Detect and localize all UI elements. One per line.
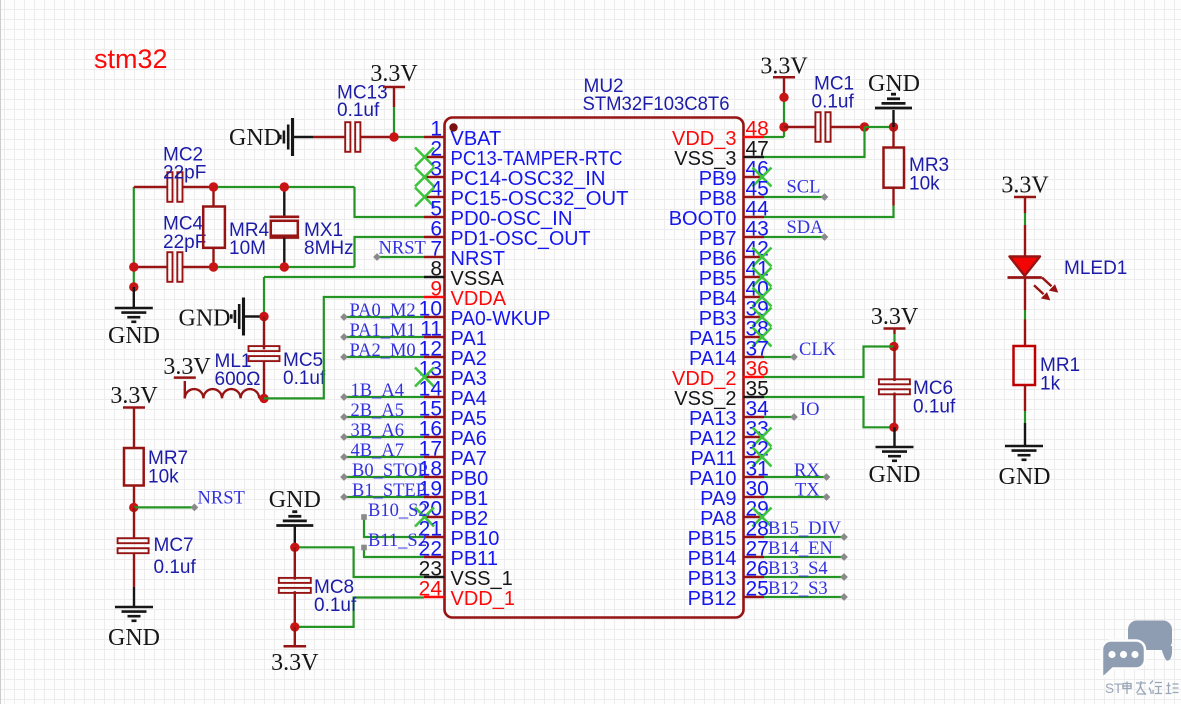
svg-text:PA6: PA6: [451, 428, 487, 450]
no-connect X pin 4: [415, 188, 434, 207]
net label PA0_M2 wire pin 10: [344, 316, 424, 318]
power 3.3V at LED: [1014, 196, 1036, 199]
capacitor MC5 0.1uf: [263, 317, 265, 350]
svg-text:2B_A5: 2B_A5: [351, 401, 404, 421]
net label NRST at pin7: [377, 256, 424, 258]
wire crystal left vertical: [133, 187, 135, 267]
svg-text:PA5: PA5: [451, 408, 487, 430]
wire pin1 VBAT to MC13 junction: [394, 136, 424, 138]
pin 29 PA8 (right): [744, 516, 765, 518]
svg-text:8MHz: 8MHz: [304, 238, 354, 259]
pin 6 PD1-OSC_OUT (left): [424, 236, 445, 238]
pin 26 PB13 (right): [744, 576, 765, 578]
net label PA1_M1 wire pin 11: [344, 336, 424, 338]
net label 2B_A5 wire pin 15: [344, 416, 424, 418]
svg-text:PB8: PB8: [699, 188, 737, 210]
capacitor MC4 22pF: [134, 266, 167, 268]
pin 41 PB5 (right): [744, 276, 765, 278]
net label SCL wire pin45: [764, 196, 825, 198]
pin 31 PA10 (right): [744, 476, 765, 478]
svg-text:1B_A4: 1B_A4: [351, 381, 404, 401]
pin 42 PB6 (right): [744, 256, 765, 258]
svg-text:B14_EN: B14_EN: [768, 539, 833, 559]
pin 45 PB8 (right): [744, 196, 765, 198]
svg-text:PB7: PB7: [699, 228, 737, 250]
ground GND below crystal: [133, 267, 135, 287]
svg-text:CLK: CLK: [799, 340, 837, 360]
pin 2 PC13-TAMPER-RTC (left): [424, 156, 445, 158]
svg-text:VSS_2: VSS_2: [674, 388, 736, 410]
pin 20 PB2 (left): [424, 516, 445, 518]
junction GND/MR3 node: [889, 122, 898, 131]
pin 14 PA4 (left): [424, 396, 445, 398]
power 3.3V top right: [783, 97, 785, 127]
capacitor MC7 0.1uf: [133, 507, 135, 538]
net label 3B_A6 wire pin 16: [344, 436, 424, 438]
pin 7 NRST (left): [424, 256, 445, 258]
svg-text:PA7: PA7: [451, 448, 487, 470]
capacitor MC6 0.1uf: [893, 347, 895, 382]
svg-text:RX: RX: [794, 461, 820, 481]
svg-text:0.1uf: 0.1uf: [154, 557, 197, 578]
wire VDDA junction to pin9: [264, 297, 424, 398]
wire pin35 VSS_2 to MC6: [764, 397, 894, 427]
svg-text:PB6: PB6: [699, 248, 737, 270]
svg-text:0.1uf: 0.1uf: [913, 397, 956, 418]
pin 39 PB3 (right): [744, 316, 765, 318]
svg-text:3B_A6: 3B_A6: [351, 421, 404, 441]
svg-text:0.1uf: 0.1uf: [314, 595, 357, 616]
pin 15 PA5 (left): [424, 416, 445, 418]
wire pin47 VSS_3 to GND net: [764, 127, 865, 157]
resistor MR4 10M: [212, 187, 214, 207]
svg-text:600Ω: 600Ω: [215, 369, 261, 390]
svg-text:PA2: PA2: [451, 348, 487, 370]
svg-text:PA12: PA12: [689, 428, 736, 450]
svg-text:PA0-WKUP: PA0-WKUP: [451, 308, 551, 330]
svg-text:PB13: PB13: [688, 568, 737, 590]
svg-text:PA14: PA14: [689, 348, 736, 370]
resistor MR1 1k: [1014, 346, 1036, 385]
capacitor MC2 22pF: [134, 186, 167, 188]
no-connect X pin 32: [753, 448, 772, 467]
svg-text:10k: 10k: [148, 467, 179, 488]
svg-text:ST: ST: [1105, 681, 1122, 696]
pin 9 VDDA (left): [424, 296, 445, 298]
pin 37 PA14 (right): [744, 356, 765, 358]
svg-text:GND: GND: [108, 323, 160, 349]
power 3.3V below MC8: [294, 627, 296, 646]
svg-text:B1_STEP: B1_STEP: [352, 481, 426, 501]
svg-text:GND: GND: [868, 71, 920, 97]
net label 1B_A4 wire pin 14: [344, 396, 424, 398]
svg-text:PA1_M1: PA1_M1: [350, 321, 416, 341]
resistor MR7 10k: [133, 408, 135, 449]
net label B14_EN wire pin 27: [764, 556, 844, 558]
pin 22 PB11 (left): [424, 556, 445, 558]
svg-text:BOOT0: BOOT0: [669, 208, 737, 230]
svg-text:0.1uf: 0.1uf: [283, 368, 326, 389]
pin 44 BOOT0 (right): [744, 216, 765, 218]
svg-text:B12_S3: B12_S3: [768, 579, 828, 599]
IC MU2 STM32F103C8T6 body: [445, 118, 744, 618]
svg-text:PD0-OSC_IN: PD0-OSC_IN: [451, 208, 573, 230]
pin 33 PA12 (right): [744, 436, 765, 438]
pin 3 PC14-OSC32_IN (left): [424, 176, 445, 178]
svg-text:PB9: PB9: [699, 168, 737, 190]
svg-text:SCL: SCL: [787, 178, 821, 198]
pin 21 PB10 (left): [424, 536, 445, 538]
pin 5 PD0-OSC_IN (left): [424, 216, 445, 218]
svg-text:3.3V: 3.3V: [871, 304, 919, 330]
svg-text:GND: GND: [229, 125, 281, 151]
svg-text:22pF: 22pF: [163, 232, 206, 253]
net label B11_S2 wire pin 22: [364, 548, 424, 558]
pin 1 VBAT (left): [424, 136, 445, 138]
svg-text:3.3V: 3.3V: [1001, 173, 1049, 199]
svg-text:PB3: PB3: [699, 308, 737, 330]
svg-text:VDDA: VDDA: [451, 288, 507, 310]
svg-text:VBAT: VBAT: [451, 128, 502, 150]
pin 27 PB14 (right): [744, 556, 765, 558]
svg-text:MC7: MC7: [154, 535, 194, 556]
svg-text:GND: GND: [269, 487, 321, 513]
pin 17 PA7 (left): [424, 456, 445, 458]
pin 24 VDD_1 (left): [424, 596, 445, 598]
svg-text:GND: GND: [108, 625, 160, 651]
wire pin48 VDD_3 to 3.3V junction: [764, 136, 784, 138]
wire 3.3V to LED: [1024, 197, 1026, 213]
svg-text:VDD_1: VDD_1: [451, 588, 515, 610]
pin 13 PA3 (left): [424, 376, 445, 378]
junction dots crystal rows: [209, 182, 218, 191]
svg-text:PB4: PB4: [699, 288, 737, 310]
net label 4B_A7 wire pin 17: [344, 456, 424, 458]
svg-text:TX: TX: [795, 481, 820, 501]
svg-text:VDD_2: VDD_2: [672, 368, 736, 390]
pin 11 PA1 (left): [424, 336, 445, 338]
svg-text:PA13: PA13: [689, 408, 736, 430]
ground GND below LED: [1005, 445, 1043, 448]
net label CLK wire pin37: [764, 356, 794, 358]
svg-text:3.3V: 3.3V: [110, 383, 158, 409]
capacitor MC13 0.1uf: [294, 136, 313, 138]
wire pin23 VSS_1 to MC8: [295, 547, 424, 577]
no-connect X pin 38: [753, 328, 772, 347]
svg-text:PB2: PB2: [451, 508, 489, 530]
net label TX wire pin30: [764, 496, 827, 498]
pin 34 PA13 (right): [744, 416, 765, 418]
junction MC8 bottom: [290, 622, 299, 631]
pin 30 PA9 (right): [744, 496, 765, 498]
pin 47 VSS_3 (right): [744, 156, 765, 158]
wire MR3 to pin44 BOOT0: [892, 188, 894, 206]
capacitor MC8 0.1uf: [294, 547, 296, 579]
svg-text:B15_DIV: B15_DIV: [768, 519, 842, 539]
pin 32 PA11 (right): [744, 456, 765, 458]
ground GND below MC7: [133, 587, 135, 607]
svg-text:B10_S2: B10_S2: [368, 501, 428, 521]
svg-text:VSS_1: VSS_1: [451, 568, 513, 590]
wire pin8 VSSA to GND junction: [264, 276, 424, 278]
wire LED to MR1: [1024, 279, 1026, 311]
net label RX wire pin31: [764, 476, 827, 478]
svg-text:VSSA: VSSA: [451, 268, 505, 290]
no-connect X pin 3: [415, 168, 434, 187]
svg-text:1k: 1k: [1040, 374, 1061, 395]
pin 10 PA0-WKUP (left): [424, 316, 445, 318]
svg-text:GND: GND: [999, 464, 1051, 490]
junction MC6 bottom: [889, 423, 898, 432]
svg-text:PA8: PA8: [700, 508, 736, 530]
no-connect X pin 39: [753, 308, 772, 327]
svg-text:PB5: PB5: [699, 268, 737, 290]
wire MR1 to GND: [1024, 385, 1026, 411]
no-connect X pin 46: [753, 168, 772, 187]
pin 43 PB7 (right): [744, 236, 765, 238]
crystal MX1 8MHz: [283, 187, 285, 217]
svg-text:3.3V: 3.3V: [271, 650, 319, 676]
svg-text:PB1: PB1: [451, 488, 489, 510]
net label B15_DIV wire pin 28: [764, 536, 844, 538]
pin 4 PC15-OSC32_OUT (left): [424, 196, 445, 198]
no-connect X pin 41: [753, 268, 772, 287]
resistor MR3 10k: [892, 127, 894, 148]
junction VDD/cap node: [779, 122, 788, 131]
inductor ML1 600: [184, 381, 186, 398]
svg-text:PA1: PA1: [451, 328, 487, 350]
pin-1 marker dot: [449, 123, 457, 131]
svg-text:0.1uf: 0.1uf: [812, 92, 855, 113]
junction MC6 top: [889, 342, 898, 351]
wire pin36 VDD_2 to MC6: [764, 347, 894, 378]
svg-text:PB14: PB14: [688, 548, 737, 570]
junction MC8 top: [290, 543, 299, 552]
svg-text:stm32: stm32: [94, 44, 168, 74]
net label NRST wire at MR7/MC7: [134, 506, 194, 508]
svg-text:NRST: NRST: [379, 239, 426, 259]
no-connect X pin 20: [415, 508, 434, 527]
svg-text:10k: 10k: [909, 174, 940, 195]
svg-text:PB10: PB10: [451, 528, 500, 550]
svg-text:PA0_M2: PA0_M2: [350, 301, 416, 321]
no-connect X pin 13: [415, 368, 434, 387]
svg-text:NRST: NRST: [198, 489, 245, 509]
pin 36 VDD_2 (right): [744, 376, 765, 378]
svg-text:4B_A7: 4B_A7: [351, 441, 404, 461]
pin 18 PB0 (left): [424, 476, 445, 478]
svg-text:PB11: PB11: [451, 548, 498, 570]
svg-text:3.3V: 3.3V: [370, 61, 418, 87]
pin 25 PB12 (right): [744, 596, 765, 598]
capacitor MC1 0.1uf: [784, 126, 815, 128]
pin 23 VSS_1 (left): [424, 576, 445, 578]
net label PA2_M0 wire pin 12: [344, 356, 424, 358]
svg-text:VSS_3: VSS_3: [674, 148, 736, 170]
wire crystal top row to pin5: [214, 186, 355, 188]
svg-text:PC14-OSC32_IN: PC14-OSC32_IN: [451, 168, 606, 190]
pin 12 PA2 (left): [424, 356, 445, 358]
svg-text:PD1-OSC_OUT: PD1-OSC_OUT: [451, 228, 591, 250]
svg-text:VDD_3: VDD_3: [672, 128, 736, 150]
net label IO wire pin34: [764, 416, 794, 418]
svg-text:SDA: SDA: [787, 218, 825, 238]
net label SDA wire pin43: [764, 236, 825, 238]
wire crystal bottom row to pin6: [214, 266, 355, 268]
svg-text:0.1uf: 0.1uf: [337, 100, 380, 121]
no-connect X pin 29: [753, 508, 772, 527]
svg-text:3.3V: 3.3V: [760, 54, 808, 80]
power 3.3V above MC13: [393, 107, 395, 137]
net label B13_S4 wire pin 26: [764, 576, 844, 578]
svg-text:GND: GND: [179, 306, 231, 332]
svg-text:B11_S2: B11_S2: [368, 531, 427, 551]
svg-text:MLED1: MLED1: [1064, 258, 1127, 279]
svg-text:PA15: PA15: [689, 328, 736, 350]
svg-text:PB15: PB15: [688, 528, 737, 550]
watermark logo ST chat bubbles: [1102, 621, 1172, 677]
wire pin24 VDD_1 to MC8: [295, 598, 424, 627]
no-connect X pin 33: [753, 428, 772, 447]
net label B12_S3 wire pin 25: [764, 596, 844, 598]
pin 40 PB4 (right): [744, 296, 765, 298]
svg-text:STM32F103C8T6: STM32F103C8T6: [583, 94, 730, 115]
pin 19 PB1 (left): [424, 496, 445, 498]
svg-text:10M: 10M: [229, 238, 266, 259]
no-connect X pin 2: [415, 148, 434, 167]
pin 28 PB15 (right): [744, 536, 765, 538]
svg-text:PC15-OSC32_OUT: PC15-OSC32_OUT: [451, 188, 629, 210]
ground GND below MC6: [893, 427, 895, 447]
svg-text:PA9: PA9: [700, 488, 736, 510]
svg-text:B0_STOP: B0_STOP: [352, 461, 428, 481]
svg-text:PA11: PA11: [691, 448, 737, 470]
pin 38 PA15 (right): [744, 336, 765, 338]
pin 48 VDD_3 (right): [744, 136, 765, 138]
junction at MC13/pin1: [389, 132, 398, 141]
svg-text:NRST: NRST: [451, 248, 505, 270]
net label B10_S2 wire pin 21: [364, 517, 424, 537]
svg-text:PA3: PA3: [451, 368, 487, 390]
svg-text:B13_S4: B13_S4: [768, 559, 828, 579]
no-connect X pin 40: [753, 288, 772, 307]
svg-text:IO: IO: [800, 400, 820, 420]
svg-text:PB0: PB0: [451, 468, 489, 490]
junction cap right: [860, 122, 869, 131]
pin 8 VSSA (left): [424, 276, 445, 278]
power 3.3V at MR7: [123, 406, 145, 409]
net label B1_STEP wire pin 19: [344, 496, 424, 498]
LED MLED1: [1010, 257, 1041, 276]
junction VDDA node: [259, 394, 268, 403]
power 3.3V at ML1: [174, 376, 196, 379]
svg-text:PA10: PA10: [689, 468, 736, 490]
ground GND top right: [892, 110, 894, 127]
svg-text:PB12: PB12: [688, 588, 737, 610]
svg-text:PC13-TAMPER-RTC: PC13-TAMPER-RTC: [451, 148, 623, 170]
svg-text:22pF: 22pF: [163, 163, 206, 184]
junction at VSSA/MC5: [259, 312, 268, 321]
pin 35 VSS_2 (right): [744, 396, 765, 398]
pin 46 PB9 (right): [744, 176, 765, 178]
net label B0_STOP wire pin 18: [344, 476, 424, 478]
pin 16 PA6 (left): [424, 436, 445, 438]
svg-text:3.3V: 3.3V: [163, 354, 211, 380]
svg-text:PA2_M0: PA2_M0: [350, 341, 416, 361]
svg-text:PA4: PA4: [451, 388, 487, 410]
no-connect X pin 42: [753, 248, 772, 267]
svg-text:GND: GND: [869, 462, 921, 488]
junction NRST node: [129, 503, 138, 512]
